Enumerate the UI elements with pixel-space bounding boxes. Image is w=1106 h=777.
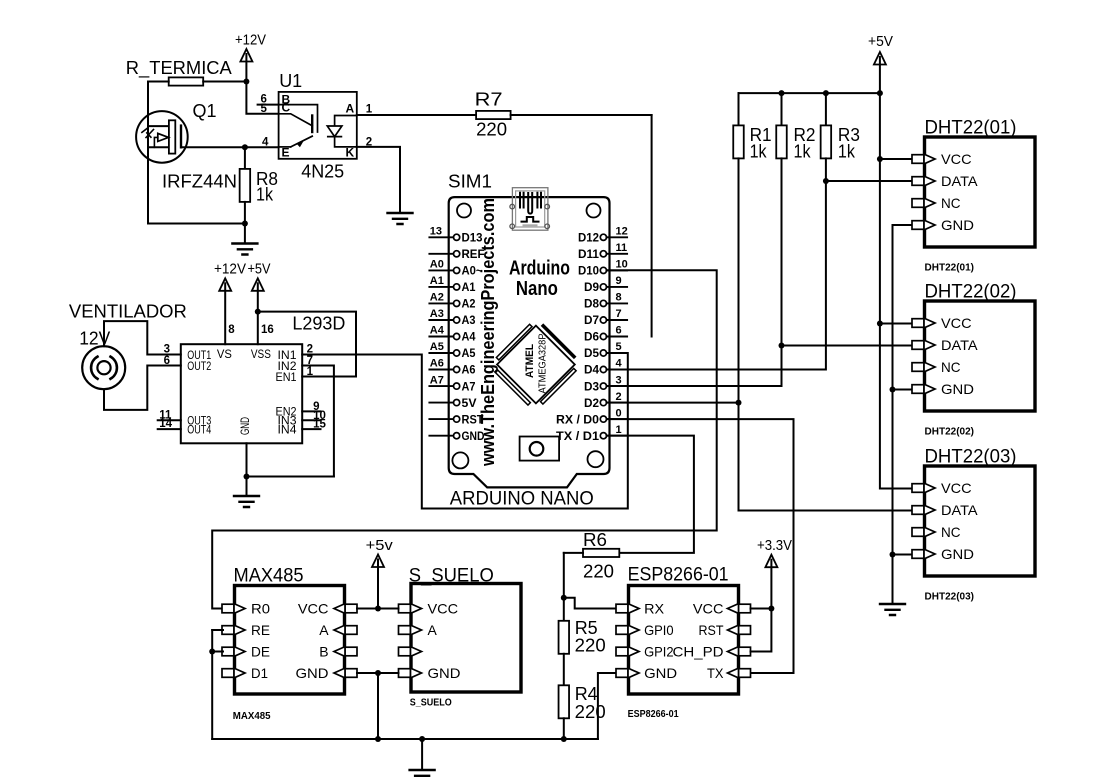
svg-text:D1: D1 bbox=[251, 665, 268, 681]
wire to ground bbox=[244, 224, 246, 244]
resistor R1 body bbox=[733, 125, 744, 158]
sensor DHT22(02) box bbox=[925, 301, 1036, 411]
resistor R6 body bbox=[583, 549, 619, 557]
wire +5V node to EN1 bbox=[258, 312, 356, 377]
svg-text:R_TERMICA: R_TERMICA bbox=[126, 58, 232, 79]
wire +5V rail down to DHT VCCs bbox=[880, 93, 913, 488]
ground (below 4N25) bbox=[388, 213, 413, 224]
svg-text:DHT22(03): DHT22(03) bbox=[925, 447, 1017, 468]
pin D4 (right) bbox=[607, 369, 628, 371]
IN3 stub bbox=[302, 419, 320, 421]
svg-text:DHT22(03): DHT22(03) bbox=[925, 592, 975, 603]
IC ESP8266-01 box bbox=[629, 586, 739, 695]
svg-text:GND: GND bbox=[644, 665, 677, 681]
motor VENTILADOR 12V bbox=[82, 346, 125, 389]
svg-text:A2: A2 bbox=[430, 292, 444, 304]
pin D6 (right) bbox=[607, 336, 628, 338]
wire motor + to L293D OUT1 bbox=[104, 321, 181, 354]
pin DE MAX485 bbox=[222, 647, 234, 656]
svg-text:GND: GND bbox=[238, 417, 252, 435]
pin RE MAX485 bbox=[222, 626, 234, 635]
pin A0~ (left) bbox=[429, 269, 453, 271]
svg-text:VENTILADOR: VENTILADOR bbox=[69, 302, 187, 322]
pin D12 (right) bbox=[607, 236, 628, 238]
GND rail for DHT sensors bbox=[893, 225, 913, 604]
svg-text:D11: D11 bbox=[578, 249, 600, 261]
wire MAX485 GND to S_SUELO GND bbox=[357, 672, 399, 674]
svg-text:U1: U1 bbox=[279, 71, 302, 91]
ground (DHT rail) bbox=[880, 604, 905, 615]
svg-text:NC: NC bbox=[941, 524, 961, 540]
junction bus/+5V bbox=[877, 90, 883, 96]
svg-text:220: 220 bbox=[575, 702, 606, 722]
svg-text:A4: A4 bbox=[462, 332, 477, 344]
svg-text:D8: D8 bbox=[584, 299, 600, 311]
svg-text:GPI2: GPI2 bbox=[644, 644, 674, 660]
wire rail up to ESP8266 GND bbox=[598, 673, 619, 739]
svg-text:3: 3 bbox=[616, 374, 622, 386]
pin D7 (right) bbox=[607, 319, 628, 321]
svg-text:Nano: Nano bbox=[516, 278, 558, 300]
svg-text:VCC: VCC bbox=[941, 480, 972, 496]
wire MAX485 VCC to S_SUELO VCC bbox=[357, 608, 399, 610]
svg-text:+5v: +5v bbox=[366, 537, 394, 554]
svg-text:TX / D1: TX / D1 bbox=[556, 431, 600, 443]
pin VCC S_SUELO bbox=[399, 604, 411, 613]
junction R1/D2 bbox=[736, 400, 742, 406]
wire VCC DHT22(01) bbox=[880, 158, 913, 160]
junction GND DHT3 bbox=[890, 552, 896, 558]
board button rectangle bbox=[520, 437, 560, 461]
svg-text:D2: D2 bbox=[584, 398, 599, 410]
svg-text:+3.3V: +3.3V bbox=[757, 537, 792, 554]
svg-text:R6: R6 bbox=[583, 530, 607, 550]
pin NC DHT22(03) bbox=[912, 528, 924, 537]
ground (bottom rail) bbox=[410, 770, 435, 777]
U1 internal phototransistor bbox=[279, 105, 318, 147]
junction bus/R3 bbox=[823, 90, 829, 96]
IC MAX485 box bbox=[235, 586, 345, 695]
resistor R8 bbox=[244, 147, 246, 169]
svg-text:16: 16 bbox=[261, 324, 274, 336]
svg-text:GND: GND bbox=[296, 665, 329, 681]
pin NC DHT22(02) bbox=[912, 363, 924, 372]
pin D11 (right) bbox=[607, 253, 628, 255]
pin GND DHT22(03) bbox=[912, 550, 924, 559]
pin D5 (right) bbox=[607, 352, 628, 354]
svg-text:10: 10 bbox=[616, 259, 628, 271]
sensor S_SUELO box bbox=[411, 584, 521, 693]
svg-text:VCC: VCC bbox=[428, 601, 459, 617]
wire U1 pin 2 (K) to ground bbox=[357, 147, 400, 213]
svg-text:GPI0: GPI0 bbox=[644, 622, 674, 638]
wire R1 rail down then right to DHT3 DATA bbox=[739, 158, 913, 510]
svg-text:GND: GND bbox=[941, 546, 974, 562]
wire DATA DHT22(02) bbox=[782, 345, 913, 347]
pin GND (left) bbox=[429, 435, 453, 437]
pin TX ESP8266 (right) bbox=[739, 669, 751, 678]
svg-text:D10: D10 bbox=[578, 266, 599, 278]
svg-text:3: 3 bbox=[164, 344, 170, 356]
svg-text:ESP8266-01: ESP8266-01 bbox=[628, 565, 729, 586]
pin D1 MAX485 bbox=[222, 669, 234, 678]
svg-text:DATA: DATA bbox=[941, 173, 978, 189]
svg-text:CH_PD: CH_PD bbox=[673, 644, 724, 660]
pin A5 (left) bbox=[429, 352, 453, 354]
pin CH_PD ESP8266 (right) bbox=[739, 647, 751, 656]
resistor R3 body bbox=[821, 125, 832, 158]
pin VCC DHT22(03) bbox=[912, 484, 924, 493]
svg-text:6: 6 bbox=[164, 355, 170, 367]
wire U1 pin 1 (A) to R7 bbox=[357, 114, 476, 116]
wire GND DHT22(03) bbox=[893, 554, 913, 556]
pin GND S_SUELO bbox=[399, 669, 411, 678]
svg-text:A5: A5 bbox=[430, 341, 444, 353]
svg-text:DATA: DATA bbox=[941, 502, 978, 518]
svg-text:12V: 12V bbox=[79, 329, 110, 349]
junction +3.3V/VCC bbox=[768, 606, 774, 612]
power +5V arrow (L293D VSS) bbox=[252, 278, 264, 291]
svg-text:8: 8 bbox=[616, 292, 622, 304]
wire R3 rail: DHT1 DATA down to Arduino D4 bbox=[607, 158, 826, 369]
wire R7 to D6 rail bbox=[511, 114, 652, 116]
power +5V (top right) bbox=[874, 52, 886, 65]
pin A7 (left) bbox=[429, 385, 453, 387]
svg-text:Q1: Q1 bbox=[193, 101, 217, 121]
svg-text:R4: R4 bbox=[575, 684, 598, 704]
svg-text:+12V: +12V bbox=[235, 32, 266, 49]
svg-text:ARDUINO NANO: ARDUINO NANO bbox=[450, 489, 594, 510]
wire GND DHT22(02) bbox=[893, 389, 913, 391]
pin TX / D1 (right) bbox=[607, 435, 628, 437]
resistor R5 body bbox=[559, 621, 570, 654]
wire +5V bus bbox=[739, 92, 880, 94]
junction +12V / R_TERMICA / U1-C bbox=[243, 79, 249, 85]
wire DE stub bbox=[212, 651, 223, 653]
svg-text:SIM1: SIM1 bbox=[448, 172, 492, 192]
svg-text:1: 1 bbox=[616, 424, 622, 436]
svg-text:D4: D4 bbox=[584, 365, 600, 377]
transistor Q1 IRFZ44N (MOSFET symbol) bbox=[136, 111, 188, 163]
wire L293D IN1 loop to Arduino D5 bbox=[302, 353, 628, 509]
wire IN2 down to gnd rail bbox=[302, 366, 334, 477]
U1 E internal stub bbox=[279, 146, 291, 148]
svg-text:GND: GND bbox=[941, 381, 974, 397]
svg-text:GND: GND bbox=[941, 217, 974, 233]
pin A1 (left) bbox=[429, 286, 453, 288]
svg-text:RX: RX bbox=[644, 601, 665, 617]
junction R6/R5/ESP-RX bbox=[561, 595, 567, 601]
svg-text:A1: A1 bbox=[462, 282, 477, 294]
pin NC DHT22(01) bbox=[912, 199, 924, 208]
junction GND DHT2 bbox=[890, 387, 896, 393]
svg-text:GND: GND bbox=[428, 665, 461, 681]
junction L293D gnd bbox=[244, 474, 250, 480]
U1 pin 6 stub (B) bbox=[258, 104, 279, 106]
USB connector bbox=[510, 188, 550, 231]
resistor R1 bbox=[738, 93, 740, 125]
pin NC S_SUELO bbox=[399, 647, 411, 656]
pin REF (left) bbox=[429, 253, 453, 255]
wire VCC DHT22(02) bbox=[880, 323, 913, 325]
junction R2/DATA2 bbox=[779, 343, 785, 349]
svg-text:4: 4 bbox=[616, 358, 623, 370]
IN4 stub bbox=[302, 428, 320, 430]
svg-text:A7: A7 bbox=[430, 374, 444, 386]
svg-text:1k: 1k bbox=[794, 142, 812, 162]
svg-text:A6: A6 bbox=[430, 358, 444, 370]
pin RST ESP8266 (right) bbox=[739, 626, 751, 635]
svg-text:1k: 1k bbox=[256, 185, 274, 205]
svg-text:RST: RST bbox=[699, 622, 724, 638]
pin VCC DHT22(02) bbox=[912, 319, 924, 328]
pin A MAX485 (right) bbox=[345, 626, 357, 635]
junction rail/ground bbox=[419, 736, 425, 742]
pin RX / D0 (right) bbox=[607, 418, 628, 420]
U1 internal LED diode bbox=[327, 116, 357, 147]
OUT3 stub bbox=[158, 419, 181, 421]
wire RE stub bbox=[212, 629, 223, 631]
svg-text:D3: D3 bbox=[584, 381, 599, 393]
svg-text:A2: A2 bbox=[462, 299, 476, 311]
junction VCC1 bbox=[877, 156, 883, 162]
svg-text:D12: D12 bbox=[578, 233, 599, 245]
svg-text:+5V: +5V bbox=[868, 33, 893, 50]
svg-text:D5: D5 bbox=[584, 348, 600, 360]
OUT4 stub bbox=[158, 428, 181, 430]
svg-text:NC: NC bbox=[941, 195, 961, 211]
wire R6 left bbox=[564, 552, 583, 554]
svg-text:OUT2: OUT2 bbox=[187, 359, 211, 373]
svg-text:1: 1 bbox=[307, 366, 314, 378]
svg-text:4N25: 4N25 bbox=[301, 162, 344, 182]
svg-text:220: 220 bbox=[583, 562, 614, 582]
wire R_TERMICA left bbox=[148, 81, 169, 83]
junction +5v/VCC bbox=[375, 606, 381, 612]
resistor R2 body bbox=[776, 125, 787, 158]
svg-text:L293D: L293D bbox=[292, 314, 345, 334]
svg-text:S_SUELO: S_SUELO bbox=[410, 698, 452, 709]
svg-text:13: 13 bbox=[430, 226, 442, 238]
pin D9 (right) bbox=[607, 286, 628, 288]
svg-text:www.TheEngineeringProjects.com: www.TheEngineeringProjects.com bbox=[478, 198, 498, 467]
svg-text:A0: A0 bbox=[430, 259, 444, 271]
svg-text:B: B bbox=[319, 644, 328, 660]
pin A S_SUELO bbox=[399, 626, 411, 635]
pin R0 MAX485 bbox=[222, 604, 234, 613]
resistor R8 body bbox=[240, 169, 251, 202]
wire to bottom ground bbox=[421, 739, 423, 770]
junction rail/R4 bbox=[561, 736, 567, 742]
svg-text:IN4: IN4 bbox=[278, 422, 297, 436]
wire R5 to R4 bbox=[563, 654, 565, 686]
svg-text:1k: 1k bbox=[750, 142, 768, 162]
svg-text:A5: A5 bbox=[462, 348, 477, 360]
op-amp U1 4N25 optocoupler box bbox=[279, 92, 357, 159]
svg-text:A4: A4 bbox=[430, 325, 445, 337]
svg-text:A: A bbox=[319, 622, 329, 638]
pin 5V (left) bbox=[429, 402, 453, 404]
svg-text:C: C bbox=[282, 101, 291, 115]
svg-text:D7: D7 bbox=[584, 315, 599, 327]
pin VCC DHT22(01) bbox=[912, 155, 924, 164]
pin GPI0 ESP8266 bbox=[616, 626, 628, 635]
junction R3/DATA1 bbox=[823, 178, 829, 184]
junction bus/R2 bbox=[779, 90, 785, 96]
wire L293D GND pin down bbox=[246, 443, 248, 496]
wire Q1 drain to U1 pin 4 (E) bbox=[181, 146, 279, 148]
svg-text:ATMEL: ATMEL bbox=[524, 344, 536, 378]
svg-text:2: 2 bbox=[616, 391, 622, 403]
junction RE/DE bbox=[209, 649, 215, 655]
power +12V (top left) bbox=[240, 49, 252, 62]
svg-text:7: 7 bbox=[616, 308, 622, 320]
ground (below L293D) bbox=[234, 496, 259, 507]
svg-text:MAX485: MAX485 bbox=[233, 711, 271, 722]
pin A3 (left) bbox=[429, 319, 453, 321]
svg-text:A1: A1 bbox=[430, 275, 444, 287]
svg-text:EN1: EN1 bbox=[276, 370, 297, 384]
svg-text:VS: VS bbox=[217, 347, 232, 361]
svg-text:DHT22(01): DHT22(01) bbox=[925, 118, 1017, 139]
svg-text:DHT22(01): DHT22(01) bbox=[925, 263, 975, 274]
svg-text:0: 0 bbox=[616, 407, 622, 419]
svg-text:DHT22(02): DHT22(02) bbox=[925, 282, 1017, 303]
junction rail/MAX-GND bbox=[375, 736, 381, 742]
svg-text:5: 5 bbox=[261, 103, 268, 115]
wire gate loop vertical (left of Q1) bbox=[147, 82, 149, 224]
svg-text:VCC: VCC bbox=[298, 601, 329, 617]
pin DATA DHT22(01) bbox=[912, 177, 924, 186]
pin D10 (right) bbox=[607, 269, 628, 271]
svg-text:12: 12 bbox=[616, 226, 628, 238]
pin DATA DHT22(02) bbox=[912, 341, 924, 350]
resistor R3 bbox=[825, 93, 827, 125]
EN2 stub bbox=[302, 410, 320, 412]
wire R4 bottom to rail bbox=[563, 718, 565, 739]
resistor R7 body bbox=[476, 111, 511, 119]
pin D3 (right) bbox=[607, 385, 628, 387]
svg-text:R7: R7 bbox=[475, 90, 503, 110]
svg-text:TX: TX bbox=[707, 665, 724, 681]
pin GND MAX485 (right) bbox=[345, 669, 357, 678]
ground (below R8) bbox=[232, 244, 257, 255]
svg-text:VCC: VCC bbox=[941, 151, 972, 167]
pin A6 (left) bbox=[429, 369, 453, 371]
power +12V arrow (L293D VS) bbox=[219, 278, 231, 291]
svg-text:IRFZ44N: IRFZ44N bbox=[162, 172, 237, 192]
junction R8 top bbox=[242, 144, 248, 150]
svg-text:A3: A3 bbox=[462, 315, 476, 327]
wire Arduino D2 to R1 rail bbox=[607, 402, 739, 404]
resistor R_TERMICA body bbox=[169, 77, 204, 85]
sensor DHT22(03) box bbox=[925, 466, 1036, 576]
svg-text:220: 220 bbox=[575, 636, 606, 656]
sensor DHT22(01) box bbox=[925, 137, 1036, 247]
svg-text:MAX485: MAX485 bbox=[234, 566, 304, 587]
junction VCC2 bbox=[877, 321, 883, 327]
pin RST (left) bbox=[429, 418, 453, 420]
wire down to R5 bbox=[563, 553, 565, 621]
svg-text:DE: DE bbox=[251, 644, 270, 660]
svg-text:OUT4: OUT4 bbox=[187, 422, 211, 436]
pin DATA DHT22(03) bbox=[912, 506, 924, 515]
junction R8 / ground bbox=[242, 221, 248, 227]
svg-text:DATA: DATA bbox=[941, 337, 978, 353]
pin D13 (left) bbox=[429, 236, 453, 238]
wire +3.3V to CH_PD bbox=[751, 609, 772, 652]
svg-text:A6: A6 bbox=[462, 365, 476, 377]
svg-text:A: A bbox=[346, 102, 355, 116]
wire jog to ESP8266 RX bbox=[564, 598, 619, 609]
pin VCC MAX485 (right) bbox=[345, 604, 357, 613]
svg-text:9: 9 bbox=[616, 275, 622, 287]
pin A2 (left) bbox=[429, 302, 453, 304]
svg-text:VCC: VCC bbox=[941, 315, 972, 331]
wire Arduino TX/D1 down to R6 bbox=[607, 436, 694, 553]
svg-text:Arduino: Arduino bbox=[509, 258, 570, 280]
svg-text:D6: D6 bbox=[584, 332, 599, 344]
wire VSS down to box bbox=[257, 312, 259, 345]
mounting holes bbox=[457, 204, 471, 218]
svg-text:ESP8266-01: ESP8266-01 bbox=[628, 709, 679, 720]
wire DATA DHT22(01) bbox=[826, 180, 913, 182]
power +3.3V (ESP8266) bbox=[765, 555, 777, 568]
svg-text:1k: 1k bbox=[838, 142, 856, 162]
svg-text:A7: A7 bbox=[462, 381, 476, 393]
wire Arduino RX/D0 to ESP8266 TX bbox=[607, 419, 794, 673]
svg-text:+5V: +5V bbox=[248, 261, 271, 278]
junction GND bbox=[375, 670, 381, 676]
svg-text:VCC: VCC bbox=[693, 601, 724, 617]
pin RX ESP8266 bbox=[616, 604, 628, 613]
svg-text:A3: A3 bbox=[430, 308, 444, 320]
svg-text:5: 5 bbox=[616, 341, 622, 353]
pin GND ESP8266 bbox=[616, 669, 628, 678]
wire Arduino D10 to MAX485 R0 bbox=[212, 270, 717, 608]
ATMEGA328P chip (rotated square) bbox=[488, 317, 583, 412]
svg-text:6: 6 bbox=[616, 325, 622, 337]
wire R_TERMICA right to +12V node bbox=[203, 81, 246, 83]
svg-text:5V: 5V bbox=[462, 398, 477, 410]
pin D8 (right) bbox=[607, 302, 628, 304]
pin GPI2 ESP8266 bbox=[616, 647, 628, 656]
pin A4 (left) bbox=[429, 336, 453, 338]
svg-text:8: 8 bbox=[228, 324, 235, 336]
svg-text:220: 220 bbox=[476, 120, 507, 140]
wire R8 bottom bbox=[244, 202, 246, 224]
wire bottom to R8/ground node bbox=[148, 223, 245, 225]
svg-text:1: 1 bbox=[366, 104, 373, 116]
Arduino Nano board outline bbox=[449, 197, 610, 487]
svg-text:RE: RE bbox=[251, 622, 270, 638]
svg-text:ATMEGA328P: ATMEGA328P bbox=[537, 334, 549, 394]
svg-text:+12V: +12V bbox=[214, 261, 246, 278]
svg-text:4: 4 bbox=[262, 136, 269, 148]
svg-text:VSS: VSS bbox=[251, 347, 271, 361]
wire RE/DE down to gnd rail bbox=[211, 630, 213, 739]
wire ESP VCC stub bbox=[751, 608, 772, 610]
wire gnd rail to IN2 bbox=[247, 476, 334, 478]
wire GND down to rail bbox=[377, 673, 379, 739]
wire vertical down to Arduino D6 bbox=[651, 115, 653, 337]
svg-text:NC: NC bbox=[941, 359, 961, 375]
svg-text:D9: D9 bbox=[584, 282, 599, 294]
svg-text:RX / D0: RX / D0 bbox=[556, 414, 599, 426]
pin GND DHT22(02) bbox=[912, 385, 924, 394]
wire motor - to L293D OUT2 bbox=[104, 366, 181, 410]
svg-text:A: A bbox=[428, 622, 438, 638]
